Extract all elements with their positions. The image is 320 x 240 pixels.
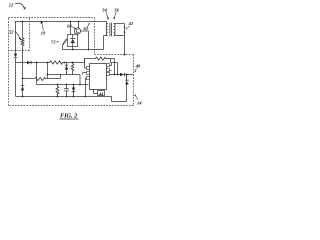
wire: second vertical (line 2) upper [22, 22, 24, 38]
wire: x110 branch down to y62 [111, 59, 118, 75]
wire: return path under IC [112, 97, 127, 102]
label 64 with hook [67, 24, 72, 29]
wire: Q1 right lead to x88 [81, 31, 89, 50]
transformer T1 primary winding 34 [106, 24, 108, 36]
transformer T1 secondary winding 36 [114, 24, 116, 36]
diode D4 (up) between rail and mid wire [65, 63, 69, 75]
diode D1 (down) on line 1 [14, 54, 17, 58]
transistor Q1 64 circle [74, 28, 80, 34]
node dot collector [72, 49, 90, 51]
label 32 with arrow [8, 30, 14, 35]
label 72 with pointer [51, 40, 56, 45]
wire: vertical x79.5 [79, 75, 81, 85]
wire: bottom rail y96 [16, 96, 112, 98]
wire: pin L2 stub [83, 73, 87, 75]
label 48 with pointer [135, 63, 141, 68]
wire: rail y84 [37, 84, 89, 86]
IC right pin boxes [107, 64, 110, 67]
wire: secondary vertical x124 [124, 24, 126, 55]
label 19 with pointer [41, 31, 46, 36]
label 12 with arrow [9, 3, 14, 8]
svg-text:12: 12 [9, 3, 14, 8]
svg-text:14: 14 [137, 101, 142, 106]
wire: pin R2 stub [110, 70, 112, 72]
dashed enclosure box 12 [9, 18, 134, 106]
capacitor C1 [64, 85, 69, 97]
wire: primary return y49 [63, 49, 104, 51]
figure caption FIG. 2 [60, 113, 77, 120]
wire: pin L1 connect [85, 59, 87, 69]
svg-text:FIG. 2: FIG. 2 [60, 113, 77, 120]
wire: mid rail y62 [16, 62, 85, 64]
node dots top bus [22, 21, 87, 98]
diode D2 (up) on line 2 bottom [21, 85, 25, 87]
transistor Q1 internals [76, 29, 78, 33]
svg-text:19: 19 [41, 31, 46, 36]
wire: secondary bottom lead [114, 35, 125, 37]
wire: rail y78 [23, 75, 61, 79]
node dots mid rail [36, 62, 38, 64]
wire: zener bottom lead [72, 47, 74, 50]
label 14 with arrow [137, 101, 142, 106]
resistor R2 (vertical small) [71, 63, 73, 75]
wire: left vertical (line 1) upper [15, 22, 17, 54]
IC U1 (controller 44) [90, 64, 107, 90]
wire: x62 vertical [62, 45, 64, 50]
label 34 with arrow [101, 7, 107, 12]
node dots secondary [124, 26, 126, 55]
wire: left vertical (line 1) lower [15, 58, 17, 96]
svg-text:34: 34 [101, 7, 107, 12]
svg-text:72: 72 [51, 40, 56, 45]
wire: pin R1 stub [110, 63, 112, 66]
label 36 with arrow [113, 7, 119, 12]
label 44 in pin box [98, 91, 104, 96]
svg-text:42: 42 [128, 21, 134, 26]
svg-text:64: 64 [67, 24, 72, 29]
wire: feed resistor line y58 [85, 59, 115, 63]
wire: vertical x36 [36, 63, 38, 85]
resistor R5 (diagonal) [63, 39, 68, 45]
diode D7 (up) on x126 [125, 79, 129, 81]
diode D5 (down) [73, 85, 75, 88]
transformer T1 primary lead bottom [104, 36, 108, 50]
transformer T1 core [110, 23, 112, 36]
svg-text:48: 48 [135, 63, 141, 68]
node dots output [114, 74, 128, 76]
pin box 44 [98, 91, 105, 96]
label 62 with hook [84, 26, 89, 31]
wire: mid wire y74 [48, 74, 81, 76]
inductor 32 (coil on line 2) [21, 38, 24, 47]
wire: top bus [15, 21, 107, 23]
wire: vertical x47 [47, 63, 49, 79]
transformer T1 primary lead top [107, 22, 108, 24]
diode D3 (right) on mid rail [27, 61, 31, 64]
svg-text:44: 44 [98, 91, 104, 96]
resistor R4 (vertical) [56, 85, 59, 97]
svg-text:32: 32 [8, 30, 14, 35]
wire: output line y74 to node 48 [110, 74, 134, 76]
svg-text:36: 36 [113, 7, 119, 12]
resistor R6 on y58 [96, 57, 106, 60]
zener box 72 [68, 35, 78, 47]
wire: pin L3 feedback down [86, 78, 87, 97]
wire: x70 vertical to zener box [70, 22, 72, 35]
diode D6 (right) on output line [120, 73, 124, 77]
wire: IC bottom pin to box 44 [94, 90, 98, 94]
label 42 with arrow [128, 21, 134, 26]
wire: second vertical (line 2) lower [22, 47, 24, 97]
resistor R1 on mid rail [50, 61, 63, 64]
node dots rails [22, 78, 24, 80]
wire: x114 drop [114, 59, 116, 75]
resistor R3 on rail y78 [35, 77, 46, 80]
wire: Q1 top lead [78, 22, 80, 29]
svg-text:62: 62 [84, 26, 89, 31]
dashed inner box (input rectifier block) [9, 18, 30, 51]
wire: x126 vertical with diode [126, 75, 128, 102]
wire: secondary top lead [114, 23, 125, 25]
IC left pin boxes [87, 67, 90, 70]
zener diode VR1 inside box [70, 35, 75, 47]
